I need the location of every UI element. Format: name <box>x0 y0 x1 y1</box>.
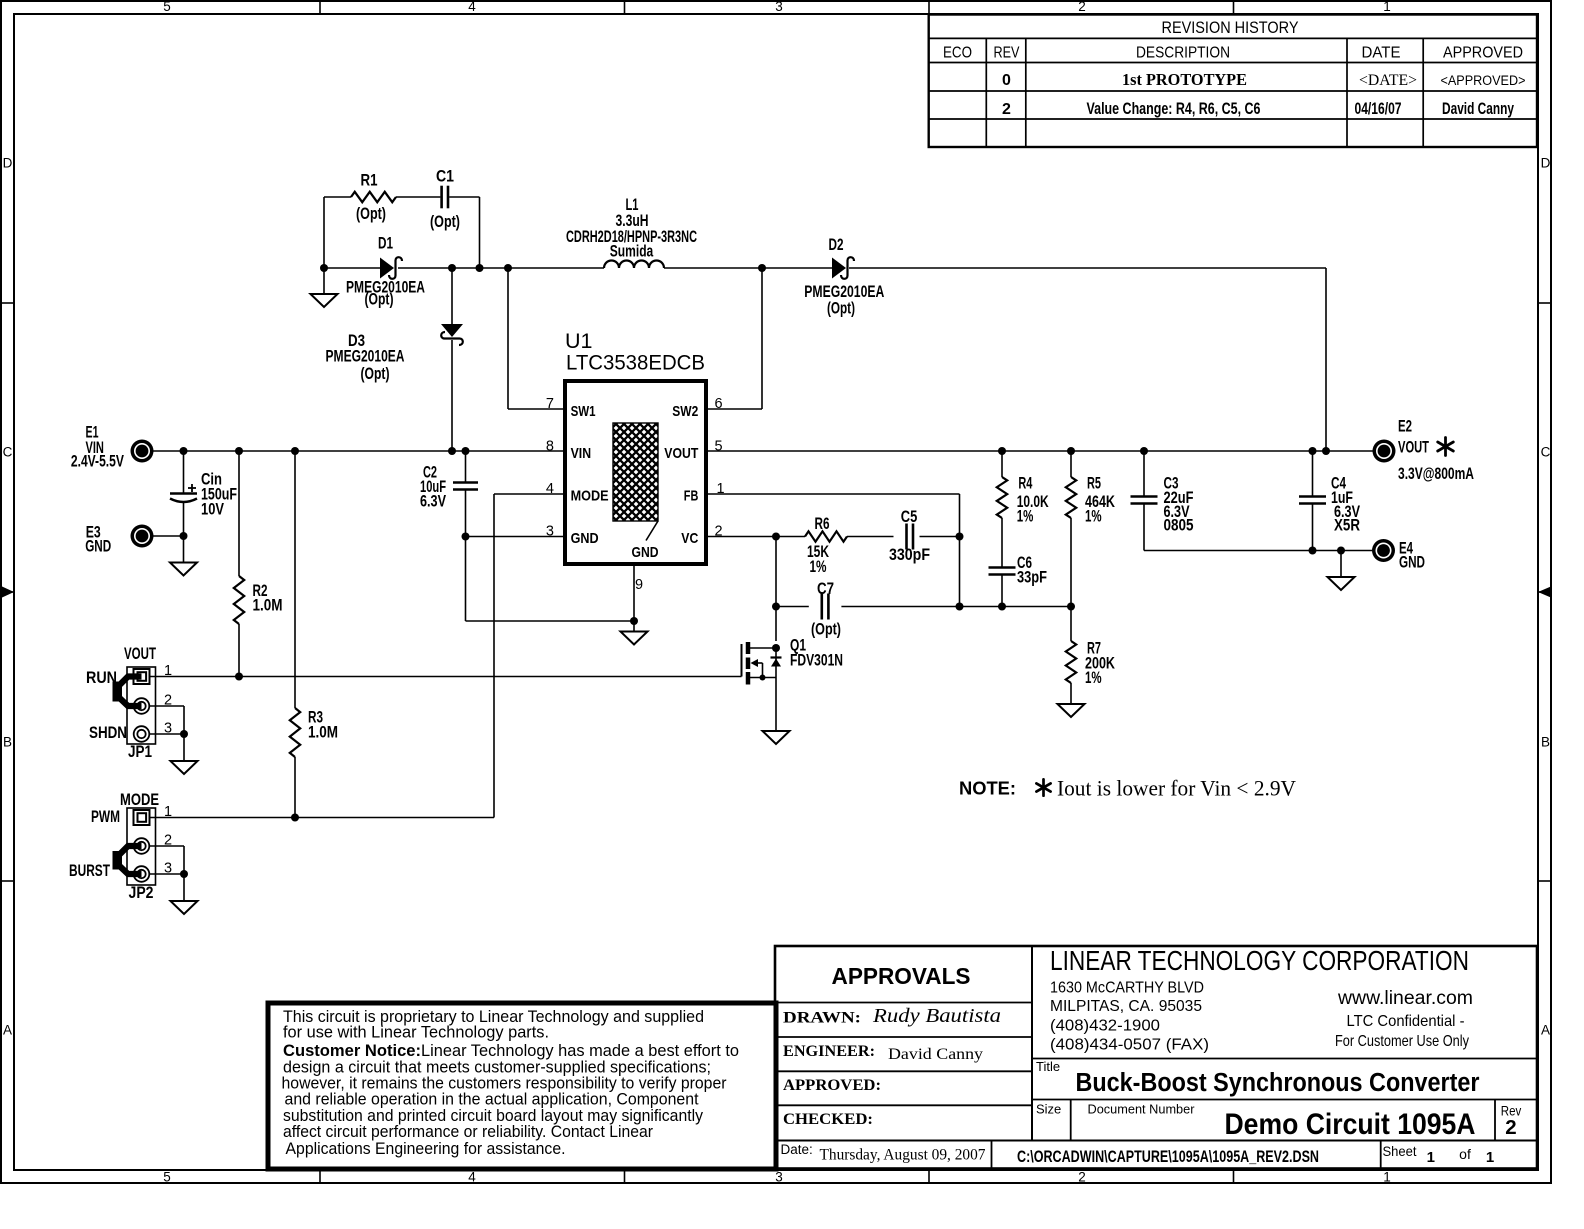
svg-text:ECO: ECO <box>943 45 972 62</box>
svg-text:FB: FB <box>684 488 699 505</box>
svg-text:Applications Engineering for a: Applications Engineering for assistance. <box>286 1139 566 1158</box>
svg-text:04/16/07: 04/16/07 <box>1355 100 1402 118</box>
svg-text:1: 1 <box>1383 0 1391 14</box>
svg-text:Iout is lower for Vin < 2.9V: Iout is lower for Vin < 2.9V <box>1057 776 1296 801</box>
svg-text:(Opt): (Opt) <box>827 300 855 318</box>
svg-text:3: 3 <box>164 861 172 877</box>
svg-text:(Opt): (Opt) <box>430 213 460 231</box>
svg-text:David Canny: David Canny <box>888 1046 983 1063</box>
svg-text:R1: R1 <box>361 172 378 190</box>
svg-text:3: 3 <box>775 1170 783 1185</box>
svg-text:<APPROVED>: <APPROVED> <box>1441 73 1526 88</box>
svg-text:C: C <box>1541 445 1551 460</box>
svg-text:SW1: SW1 <box>571 403 596 420</box>
svg-text:(Opt): (Opt) <box>361 365 390 383</box>
svg-text:2: 2 <box>1078 0 1086 14</box>
svg-text:1.0M: 1.0M <box>253 597 283 615</box>
svg-text:1%: 1% <box>1085 669 1102 687</box>
svg-text:2.4V-5.5V: 2.4V-5.5V <box>71 452 124 471</box>
svg-text:1630 McCARTHY BLVD: 1630 McCARTHY BLVD <box>1050 980 1204 997</box>
svg-text:1: 1 <box>164 804 172 820</box>
svg-text:NOTE:: NOTE: <box>959 779 1016 799</box>
svg-text:1: 1 <box>1383 1170 1391 1185</box>
svg-text:Demo Circuit 1095A: Demo Circuit 1095A <box>1225 1108 1476 1141</box>
svg-text:A: A <box>1541 1023 1550 1038</box>
svg-text:For Customer Use Only: For Customer Use Only <box>1335 1033 1469 1050</box>
svg-text:VIN: VIN <box>571 445 592 462</box>
svg-text:330pF: 330pF <box>889 546 930 564</box>
svg-text:1: 1 <box>1427 1149 1435 1166</box>
svg-text:E2: E2 <box>1398 417 1412 436</box>
svg-text:GND: GND <box>1399 553 1425 572</box>
svg-text:REV: REV <box>994 45 1020 62</box>
svg-text:for use with Linear Technology: for use with Linear Technology parts. <box>283 1023 549 1042</box>
svg-text:1%: 1% <box>1017 508 1034 526</box>
svg-text:1st PROTOTYPE: 1st PROTOTYPE <box>1122 70 1247 89</box>
svg-text:B: B <box>1541 735 1550 750</box>
svg-text:DRAWN:: DRAWN: <box>783 1010 861 1027</box>
svg-text:1.0M: 1.0M <box>308 724 338 742</box>
svg-text:FDV301N: FDV301N <box>790 652 843 670</box>
svg-text:5: 5 <box>163 0 171 14</box>
svg-text:Buck-Boost Synchronous Convert: Buck-Boost Synchronous Converter <box>1076 1069 1480 1097</box>
svg-text:(Opt): (Opt) <box>811 621 841 639</box>
svg-text:PWM: PWM <box>91 808 120 826</box>
svg-text:GND: GND <box>632 544 659 561</box>
svg-text:(Opt): (Opt) <box>356 205 386 223</box>
svg-text:4: 4 <box>468 1170 476 1185</box>
svg-text:of: of <box>1459 1146 1471 1162</box>
svg-text:SW2: SW2 <box>672 403 698 420</box>
svg-text:3.3V@800mA: 3.3V@800mA <box>1398 464 1474 483</box>
svg-text:C:\ORCADWIN\CAPTURE\1095A\1095: C:\ORCADWIN\CAPTURE\1095A\1095A_REV2.DSN <box>1017 1147 1319 1166</box>
svg-text:LTC3538EDCB: LTC3538EDCB <box>566 351 705 375</box>
svg-text:D2: D2 <box>829 236 844 254</box>
svg-text:REVISION HISTORY: REVISION HISTORY <box>1162 19 1299 37</box>
svg-text:3: 3 <box>546 524 554 540</box>
svg-text:7: 7 <box>546 396 554 412</box>
svg-text:0: 0 <box>1002 72 1011 89</box>
svg-text:1: 1 <box>717 481 725 497</box>
svg-text:10V: 10V <box>201 500 224 518</box>
svg-text:Sumida: Sumida <box>610 242 654 260</box>
svg-text:(Opt): (Opt) <box>365 291 394 309</box>
svg-text:David Canny: David Canny <box>1442 100 1515 118</box>
svg-text:BURST: BURST <box>69 862 110 880</box>
svg-text:1%: 1% <box>1085 508 1102 526</box>
svg-text:Sheet: Sheet <box>1383 1143 1417 1159</box>
svg-text:C: C <box>3 445 13 460</box>
svg-text:2: 2 <box>164 833 172 849</box>
svg-text:2: 2 <box>715 524 723 540</box>
svg-text:MODE: MODE <box>571 488 609 505</box>
svg-text:DESCRIPTION: DESCRIPTION <box>1136 45 1230 62</box>
svg-text:Thursday, August 09, 2007: Thursday, August 09, 2007 <box>820 1147 986 1164</box>
svg-text:U1: U1 <box>565 329 592 353</box>
svg-text:LTC Confidential -: LTC Confidential - <box>1347 1013 1465 1030</box>
svg-text:6.3V: 6.3V <box>420 493 446 511</box>
svg-text:3: 3 <box>775 0 783 14</box>
svg-text:0805: 0805 <box>1164 517 1194 535</box>
svg-text:R6: R6 <box>815 515 830 533</box>
svg-text:SHDN: SHDN <box>89 724 127 742</box>
svg-text:5: 5 <box>715 438 723 454</box>
svg-text:R4: R4 <box>1018 474 1033 492</box>
svg-text:VOUT: VOUT <box>1398 438 1429 457</box>
svg-text:Document Number: Document Number <box>1088 1102 1196 1117</box>
svg-text:D: D <box>1541 156 1551 171</box>
svg-text:B: B <box>3 735 12 750</box>
svg-text:LINEAR TECHNOLOGY CORPORATION: LINEAR TECHNOLOGY CORPORATION <box>1050 945 1469 976</box>
svg-text:Rudy Bautista: Rudy Bautista <box>872 1005 1001 1027</box>
svg-text:APPROVALS: APPROVALS <box>832 963 971 989</box>
svg-text:33pF: 33pF <box>1017 569 1047 587</box>
svg-text:X5R: X5R <box>1334 517 1360 535</box>
svg-text:9: 9 <box>635 577 643 593</box>
svg-text:Date:: Date: <box>781 1142 813 1157</box>
svg-text:D1: D1 <box>378 235 393 253</box>
svg-text:C7: C7 <box>817 580 834 598</box>
svg-text:2: 2 <box>1505 1116 1516 1139</box>
svg-text:2: 2 <box>164 693 172 709</box>
svg-text:APPROVED: APPROVED <box>1443 45 1523 62</box>
svg-text:JP2: JP2 <box>129 884 154 902</box>
svg-text:MODE: MODE <box>120 791 159 809</box>
svg-text:Size: Size <box>1036 1102 1061 1117</box>
svg-text:VC: VC <box>681 530 698 547</box>
svg-text:VOUT: VOUT <box>124 645 156 663</box>
svg-text:C1: C1 <box>436 168 454 186</box>
svg-text:MILPITAS, CA. 95035: MILPITAS, CA. 95035 <box>1050 998 1202 1015</box>
svg-text:C5: C5 <box>901 508 918 526</box>
svg-text:VOUT: VOUT <box>664 445 698 462</box>
svg-text:A: A <box>3 1023 12 1038</box>
svg-text:3: 3 <box>164 721 172 737</box>
svg-text:D: D <box>3 156 13 171</box>
svg-text:APPROVED:: APPROVED: <box>783 1077 881 1094</box>
svg-text:5: 5 <box>163 1170 171 1185</box>
svg-text:GND: GND <box>571 530 599 547</box>
svg-text:(408)432-1900: (408)432-1900 <box>1050 1018 1160 1035</box>
svg-text:PMEG2010EA: PMEG2010EA <box>804 283 884 301</box>
svg-text:1: 1 <box>164 663 172 679</box>
svg-text:GND: GND <box>85 536 111 555</box>
svg-text:2: 2 <box>1002 101 1011 118</box>
svg-text:www.linear.com: www.linear.com <box>1337 988 1473 1009</box>
svg-text:4: 4 <box>546 481 554 497</box>
svg-text:4: 4 <box>468 0 476 14</box>
svg-text:Title: Title <box>1036 1059 1060 1074</box>
svg-text:Value Change: R4, R6, C5, C6: Value Change: R4, R6, C5, C6 <box>1087 100 1261 118</box>
svg-text:JP1: JP1 <box>128 743 152 761</box>
svg-text:2: 2 <box>1078 1170 1086 1185</box>
svg-text:(408)434-0507 (FAX): (408)434-0507 (FAX) <box>1050 1037 1209 1054</box>
svg-text:6: 6 <box>715 396 723 412</box>
svg-text:RUN: RUN <box>86 669 117 687</box>
svg-text:1: 1 <box>1486 1149 1494 1166</box>
svg-text:1%: 1% <box>810 558 827 576</box>
svg-text:<DATE>: <DATE> <box>1359 72 1417 89</box>
svg-text:8: 8 <box>546 438 554 454</box>
svg-text:PMEG2010EA: PMEG2010EA <box>326 348 405 366</box>
svg-text:ENGINEER:: ENGINEER: <box>783 1043 875 1060</box>
svg-text:CHECKED:: CHECKED: <box>783 1111 873 1128</box>
svg-text:DATE: DATE <box>1362 45 1401 62</box>
svg-text:R5: R5 <box>1087 474 1101 492</box>
